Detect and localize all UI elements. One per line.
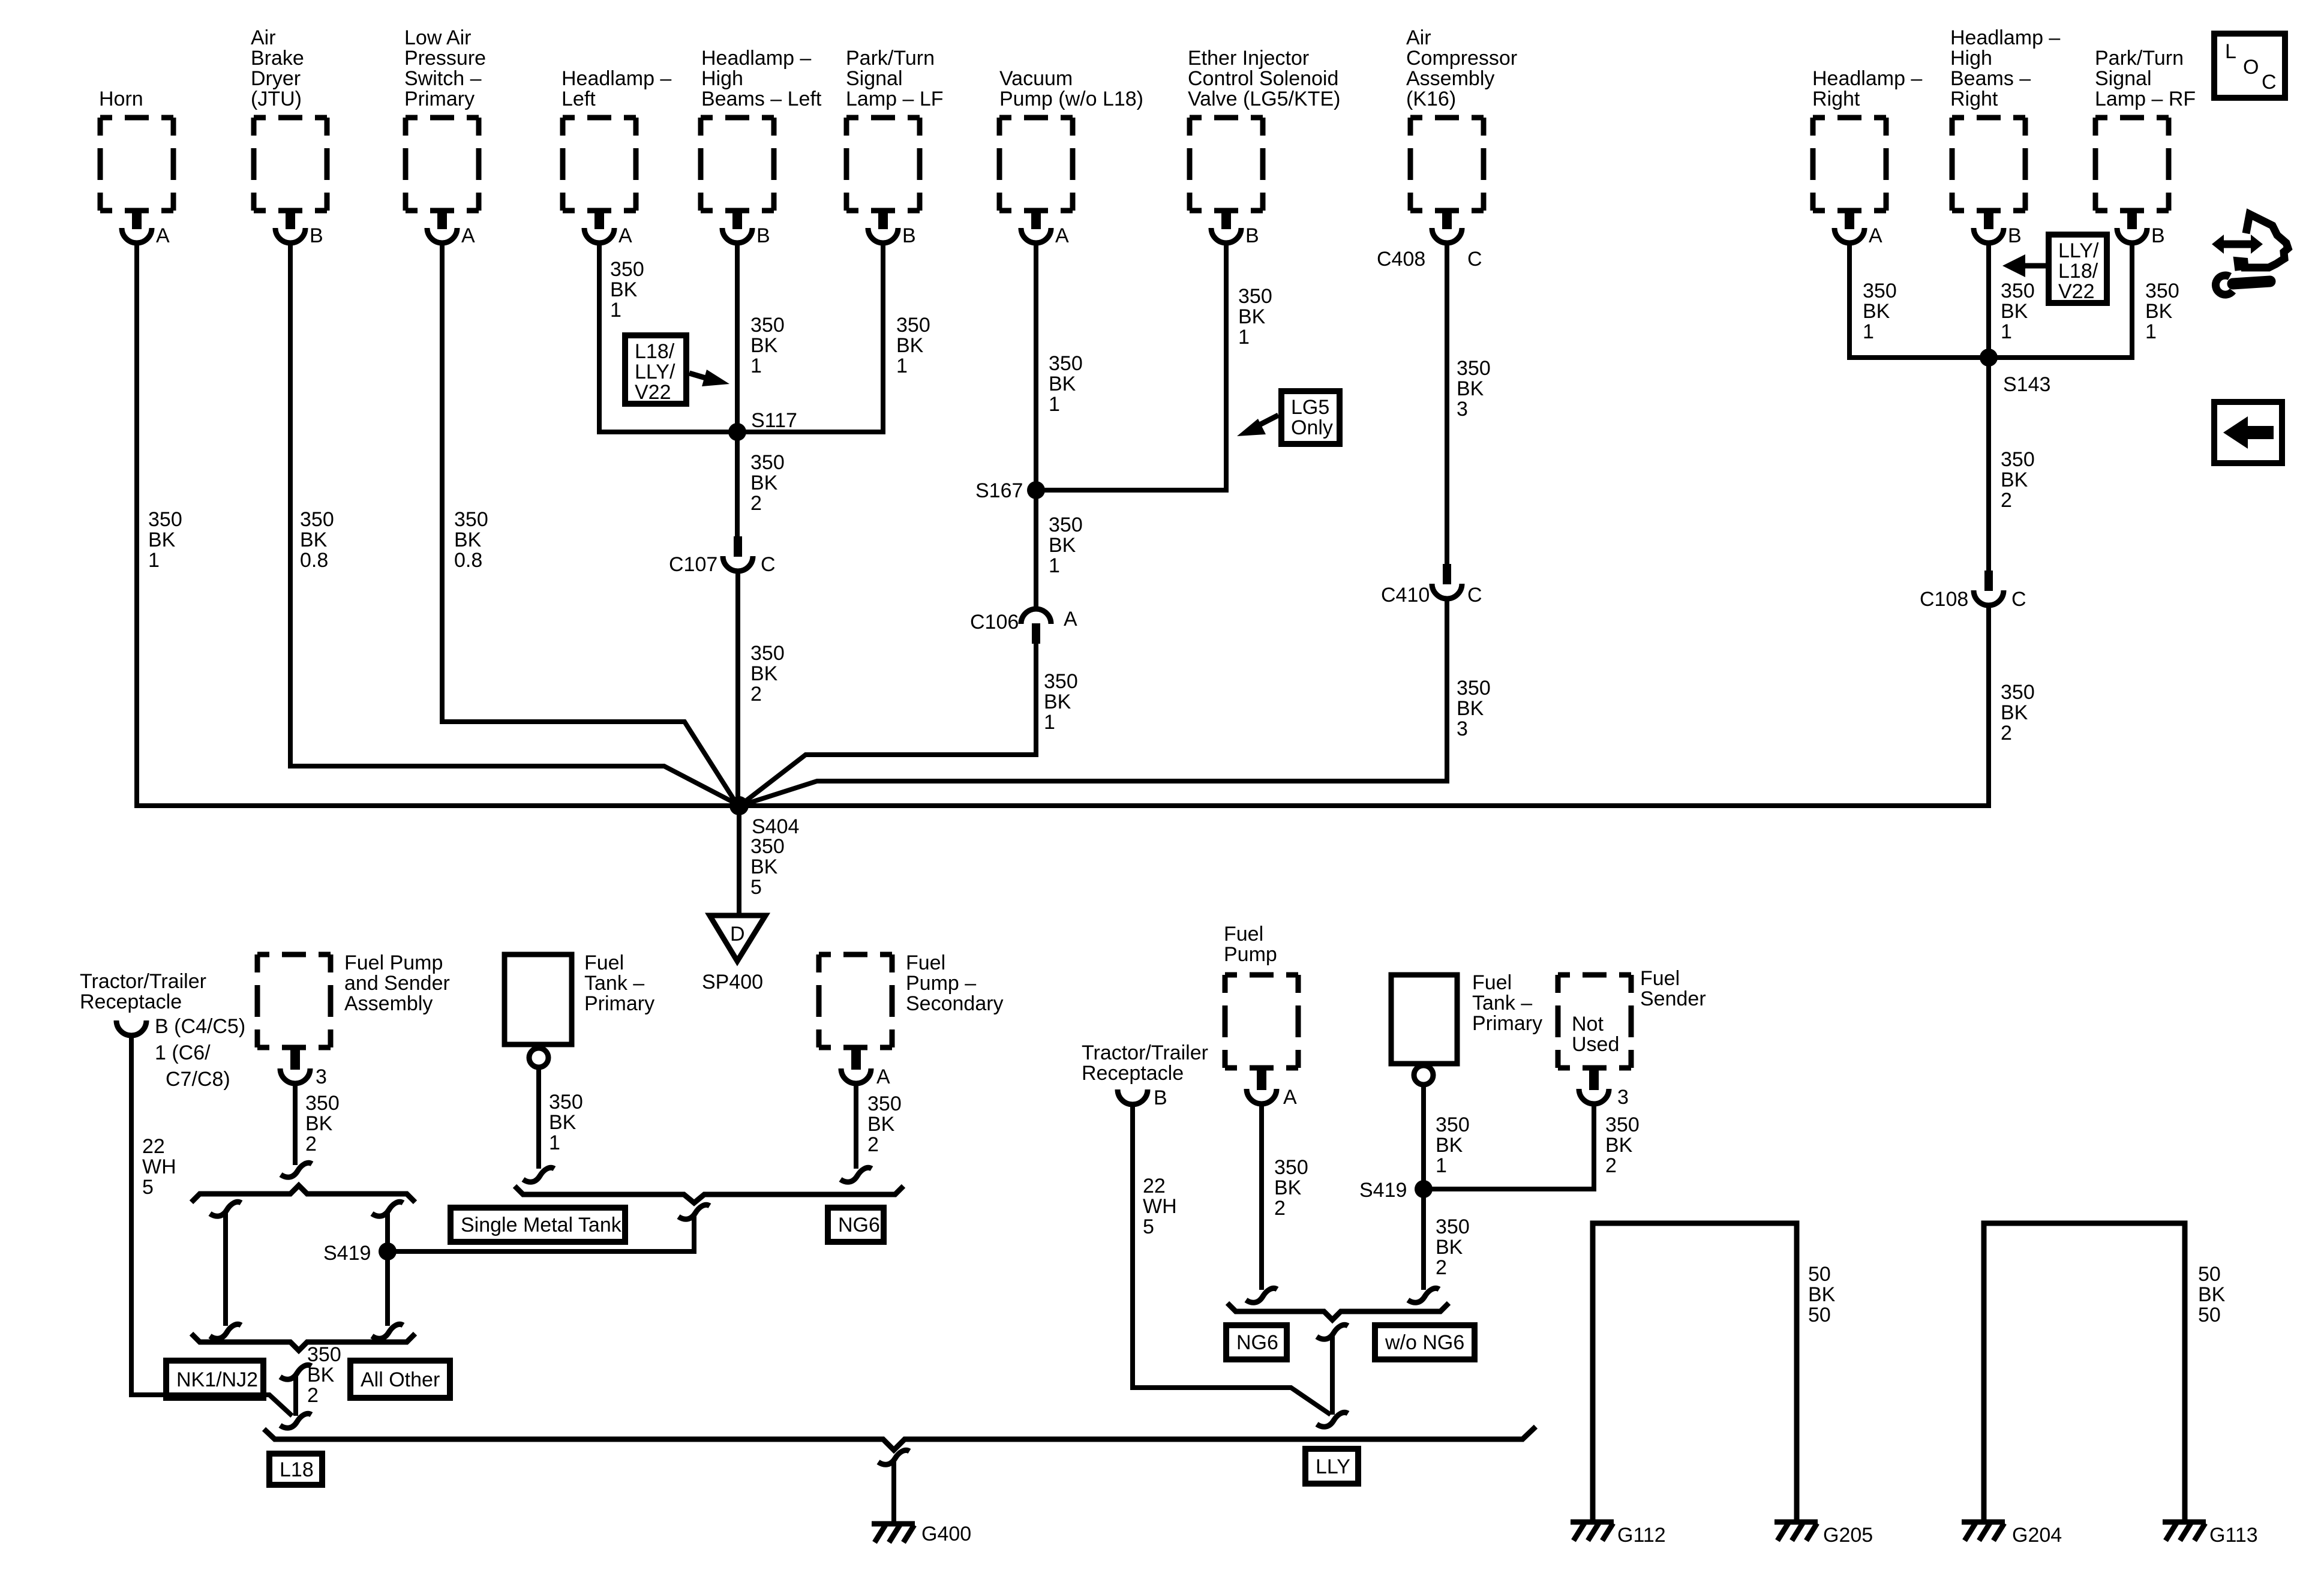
svg-text:3: 3 — [316, 1065, 327, 1088]
ground G113 — [2163, 1522, 2258, 1547]
svg-text:BK: BK — [1274, 1176, 1302, 1199]
component Tractor/Trailer Receptacle (left) — [80, 970, 245, 1091]
svg-text:BK: BK — [1049, 534, 1076, 557]
svg-text:Fuel: Fuel — [584, 951, 624, 974]
svg-text:350: 350 — [1436, 1113, 1470, 1136]
svg-text:3: 3 — [1457, 718, 1468, 740]
svg-text:Pump (w/o L18): Pump (w/o L18) — [999, 88, 1143, 110]
svg-text:22: 22 — [1143, 1175, 1166, 1197]
hook below Single Metal Tank brace center — [678, 1205, 710, 1219]
alternatives brace above NK1/NJ2 All Other labels — [191, 1334, 415, 1350]
svg-text:Headlamp –: Headlamp – — [1812, 67, 1922, 90]
svg-text:S143: S143 — [2003, 373, 2050, 396]
service icon vehicle with double arrow and wrench — [2212, 214, 2288, 295]
svg-text:C408: C408 — [1377, 248, 1425, 271]
branch wire NK1/NJ2 alternative — [223, 1212, 228, 1326]
component Fuel Pump and Sender Assembly (dashed box) — [257, 951, 450, 1047]
svg-text:Vacuum: Vacuum — [999, 67, 1073, 90]
svg-text:G400: G400 — [921, 1523, 971, 1545]
svg-text:350: 350 — [1605, 1113, 1640, 1136]
svg-text:Fuel: Fuel — [1472, 971, 1512, 994]
svg-text:2: 2 — [750, 492, 762, 515]
svg-text:Assembly: Assembly — [344, 992, 433, 1015]
svg-text:Only: Only — [1291, 416, 1333, 439]
option label box NK1/NJ2 — [166, 1361, 263, 1398]
option label box All Other — [350, 1361, 450, 1398]
svg-text:350: 350 — [1863, 280, 1897, 302]
component Park/Turn Signal Lamp - RF (dashed box) — [2095, 47, 2196, 211]
svg-text:350: 350 — [1274, 1156, 1308, 1179]
svg-text:C7/C8): C7/C8) — [166, 1068, 230, 1091]
svg-text:NG6: NG6 — [1236, 1331, 1278, 1354]
svg-text:1: 1 — [610, 299, 621, 322]
ground G205 — [1774, 1522, 1873, 1547]
svg-text:1: 1 — [549, 1131, 560, 1154]
svg-text:BK: BK — [1436, 1134, 1463, 1157]
connector pin B of Ether Injector Valve — [1211, 209, 1259, 247]
svg-text:BK: BK — [2198, 1283, 2226, 1306]
svg-text:Tank –: Tank – — [1472, 992, 1532, 1014]
splice pack SP400 triangle D — [702, 915, 765, 993]
svg-text:BK: BK — [1457, 377, 1484, 400]
svg-text:BK: BK — [1808, 1283, 1836, 1306]
svg-text:(K16): (K16) — [1406, 88, 1456, 110]
option label box LLY — [1305, 1449, 1358, 1484]
svg-text:A: A — [156, 224, 170, 247]
svg-text:WH: WH — [142, 1155, 176, 1178]
svg-text:Air: Air — [251, 26, 276, 49]
component Fuel Tank - Primary (left, solid box) — [505, 951, 654, 1044]
option label box w/o NG6 — [1375, 1325, 1475, 1359]
svg-text:5: 5 — [1143, 1215, 1154, 1238]
wire 350 BK 1 from S167 to C106 — [1036, 490, 1083, 610]
svg-text:L18/: L18/ — [635, 340, 675, 363]
svg-text:1: 1 — [2145, 320, 2157, 343]
wire 350 BK 2 from C108 to S404 — [739, 604, 2035, 806]
callout box LG5 Only with arrow — [1237, 391, 1340, 444]
component Air Compressor Assembly (K16) (dashed box) — [1406, 26, 1517, 211]
svg-text:350: 350 — [1049, 352, 1083, 375]
svg-text:A: A — [876, 1065, 890, 1088]
svg-text:C107: C107 — [669, 553, 717, 576]
svg-text:Sender: Sender — [1640, 987, 1706, 1010]
svg-text:350: 350 — [1436, 1215, 1470, 1238]
svg-text:350: 350 — [750, 451, 785, 474]
svg-text:C410: C410 — [1381, 584, 1430, 607]
svg-text:2: 2 — [307, 1384, 319, 1407]
hook top of All Other branch — [372, 1202, 403, 1216]
svg-text:Headlamp –: Headlamp – — [701, 47, 811, 70]
wire 350 BK 5 from S404 to SP400 — [739, 806, 785, 917]
connector pin A of Headlamp Right — [1834, 209, 1882, 247]
svg-text:3: 3 — [1457, 398, 1468, 421]
component Tractor/Trailer Receptacle (right) — [1082, 1041, 1208, 1109]
svg-text:Left: Left — [562, 88, 596, 110]
svg-text:A: A — [1055, 224, 1069, 247]
svg-text:Signal: Signal — [846, 67, 903, 90]
option label box Single Metal Tank — [451, 1208, 625, 1242]
hook top of NK1/NJ2 branch — [210, 1202, 241, 1216]
wire 350 BK 1 from Headlamp Left to S117 — [599, 242, 737, 432]
svg-text:Switch –: Switch – — [404, 67, 482, 90]
svg-text:BK: BK — [750, 472, 778, 494]
svg-text:1: 1 — [750, 355, 762, 377]
splice S117 — [728, 409, 797, 441]
svg-text:S167: S167 — [975, 479, 1023, 502]
svg-text:Pump: Pump — [1224, 943, 1277, 966]
svg-text:Pump –: Pump – — [906, 972, 976, 995]
svg-text:BK: BK — [1457, 697, 1484, 720]
svg-text:Horn: Horn — [99, 88, 143, 110]
ground strap loop G204 to G113 — [1984, 1223, 2226, 1522]
inline connector C107 pin C — [669, 536, 776, 576]
svg-text:NK1/NJ2: NK1/NJ2 — [176, 1368, 258, 1391]
wire 22 WH 5 from right Tractor/Trailer Receptacle to LLY bus — [1133, 1103, 1331, 1415]
svg-text:High: High — [701, 67, 743, 90]
wire 350 BK 1 from Headlamp High Beams Left to S117 — [737, 242, 785, 432]
splice S143 — [1980, 349, 2050, 396]
svg-text:350: 350 — [750, 642, 785, 665]
svg-text:Compressor: Compressor — [1406, 47, 1517, 70]
svg-text:350: 350 — [2145, 280, 2179, 302]
component Fuel Sender (dashed box, Not Used) — [1558, 967, 1706, 1068]
hook below bus brace center — [878, 1450, 909, 1464]
hook below NG6 brace center — [1317, 1325, 1348, 1339]
inline connector C410 pin C — [1381, 564, 1482, 607]
wire from bus brace center to ground G400 — [891, 1460, 896, 1523]
svg-text:B: B — [1245, 224, 1259, 247]
svg-text:350: 350 — [1044, 670, 1078, 693]
svg-text:BK: BK — [750, 662, 778, 685]
svg-text:L18/: L18/ — [2058, 260, 2098, 283]
svg-text:Lamp – RF: Lamp – RF — [2095, 88, 2196, 110]
svg-text:350: 350 — [305, 1092, 340, 1115]
svg-text:1 (C6/: 1 (C6/ — [155, 1041, 211, 1064]
svg-text:350: 350 — [307, 1343, 341, 1366]
hook end of Fuel Pump right wire — [1246, 1288, 1277, 1302]
svg-text:A: A — [1283, 1086, 1297, 1109]
connector pin B of Headlamp High Beams Left — [722, 209, 770, 247]
ground G204 — [1962, 1522, 2062, 1547]
svg-text:BK: BK — [454, 529, 482, 551]
case ground ring of Fuel Tank Primary right — [1414, 1065, 1433, 1085]
svg-text:350: 350 — [300, 508, 334, 531]
svg-text:B (C4/C5): B (C4/C5) — [155, 1015, 245, 1038]
connector pin B of Headlamp High Beams Right — [1974, 209, 2022, 247]
svg-text:1: 1 — [148, 549, 160, 572]
connector pin A of Fuel Pump right — [1247, 1070, 1297, 1109]
connector pin 3 of Fuel Pump and Sender Assembly — [280, 1049, 327, 1088]
svg-text:BK: BK — [305, 1112, 333, 1135]
splice S404 — [729, 796, 799, 838]
inline connector C106 pin A — [970, 608, 1077, 644]
svg-text:350: 350 — [610, 258, 644, 281]
wire 350 BK 2 from C107 to S404 — [738, 570, 785, 806]
svg-text:Tank –: Tank – — [584, 972, 644, 995]
svg-text:BK: BK — [1436, 1236, 1463, 1259]
svg-text:S419: S419 — [1359, 1179, 1407, 1202]
svg-text:V22: V22 — [2058, 280, 2095, 303]
svg-text:BK: BK — [610, 278, 638, 301]
svg-text:Park/Turn: Park/Turn — [2095, 47, 2184, 70]
svg-text:S419: S419 — [323, 1242, 371, 1265]
hook bottom of All Other branch — [372, 1324, 403, 1338]
svg-text:A: A — [1064, 608, 1077, 631]
svg-text:C108: C108 — [1920, 588, 1968, 611]
svg-text:1: 1 — [1049, 554, 1060, 577]
wire 350 BK 1 from Park/Turn Signal Lamp LF to S117 — [737, 242, 930, 432]
svg-text:BK: BK — [2145, 300, 2173, 323]
svg-text:350: 350 — [2001, 448, 2035, 471]
wire 350 BK 3 from C408 to C410 — [1447, 242, 1491, 565]
wire 350 BK 0.8 from Low Air Pressure Switch to S404 — [442, 242, 737, 804]
callout box LLY/L18/V22 with arrow to High Beams Right wire — [2002, 235, 2107, 303]
svg-text:Right: Right — [1812, 88, 1860, 110]
svg-text:Primary: Primary — [1472, 1012, 1542, 1035]
svg-text:O: O — [2243, 56, 2259, 79]
ground G400 — [872, 1523, 971, 1545]
svg-text:NG6: NG6 — [838, 1214, 880, 1236]
wire from Single Metal Tank brace center to S419 (left) — [389, 1214, 694, 1251]
svg-text:350: 350 — [867, 1092, 902, 1115]
svg-text:2: 2 — [750, 683, 762, 706]
option label box NG6 (left section) — [828, 1208, 884, 1242]
svg-text:Headlamp –: Headlamp – — [1950, 26, 2060, 49]
wire 350 BK 1 from Horn to S404 — [137, 242, 739, 806]
svg-text:B: B — [756, 224, 770, 247]
svg-text:LLY/: LLY/ — [2058, 239, 2099, 262]
svg-text:50: 50 — [2198, 1304, 2221, 1326]
alternatives brace Single Metal Tank / NG6 — [515, 1186, 903, 1203]
wire 350 BK 2 from Fuel Pump and Sender Assembly — [295, 1082, 340, 1165]
svg-text:C: C — [1467, 584, 1482, 607]
wire 350 BK 2 from Fuel Pump right — [1262, 1103, 1308, 1290]
component Headlamp - Left (dashed box) — [562, 67, 671, 211]
svg-text:C: C — [761, 553, 776, 576]
svg-text:Tractor/Trailer: Tractor/Trailer — [1082, 1041, 1208, 1064]
svg-text:350: 350 — [2001, 681, 2035, 704]
svg-text:Used: Used — [1572, 1033, 1619, 1056]
svg-text:Fuel: Fuel — [906, 951, 945, 974]
svg-text:All Other: All Other — [361, 1368, 440, 1391]
svg-text:50: 50 — [1808, 1263, 1831, 1286]
svg-text:BK: BK — [867, 1113, 895, 1136]
svg-text:C: C — [2262, 71, 2277, 94]
svg-text:350: 350 — [1049, 514, 1083, 536]
svg-text:Dryer: Dryer — [251, 67, 301, 90]
svg-text:BK: BK — [2001, 701, 2028, 724]
svg-text:A: A — [461, 224, 475, 247]
svg-text:BK: BK — [750, 855, 778, 878]
svg-text:1: 1 — [1863, 320, 1874, 343]
svg-text:BK: BK — [549, 1111, 577, 1134]
connector pin A of Vacuum Pump — [1021, 209, 1069, 247]
wire 350 BK 1 from Vacuum Pump to S167 — [1036, 242, 1083, 490]
wire 350 BK 1 from C106 to S404 — [743, 643, 1078, 803]
svg-text:Control Solenoid: Control Solenoid — [1188, 67, 1338, 90]
hook end of Fuel Pump Secondary wire — [840, 1167, 872, 1182]
wire 350 BK 1 from Fuel Tank Primary left — [539, 1069, 583, 1169]
svg-text:5: 5 — [750, 876, 762, 899]
svg-text:Right: Right — [1950, 88, 1998, 110]
svg-text:BK: BK — [1863, 300, 1890, 323]
svg-text:BK: BK — [1605, 1134, 1633, 1157]
svg-text:Valve (LG5/KTE): Valve (LG5/KTE) — [1188, 88, 1340, 110]
case ground ring of Fuel Tank Primary left — [529, 1048, 548, 1067]
svg-text:0.8: 0.8 — [300, 549, 328, 572]
wire 350 BK 2 from brace center to L18 bus — [296, 1343, 341, 1416]
connector pin B of Air Brake Dryer — [275, 209, 323, 247]
svg-text:LG5: LG5 — [1291, 396, 1329, 419]
svg-text:1: 1 — [1044, 711, 1055, 734]
svg-text:BK: BK — [2001, 469, 2028, 491]
option label box L18 — [269, 1454, 322, 1485]
connector pin B of Park/Turn Signal Lamp LF — [868, 209, 916, 247]
component Fuel Pump - Secondary (dashed box) — [819, 951, 1004, 1047]
ground strap loop G112 to G205 — [1593, 1223, 1836, 1522]
svg-text:BK: BK — [896, 334, 924, 357]
svg-text:0.8: 0.8 — [454, 549, 482, 572]
connector pin A of Horn — [122, 209, 170, 247]
svg-text:Fuel Pump: Fuel Pump — [344, 951, 443, 974]
svg-text:B: B — [902, 224, 916, 247]
hook bottom of NK1/NJ2 branch — [210, 1324, 241, 1338]
svg-text:2: 2 — [867, 1133, 879, 1156]
svg-text:WH: WH — [1143, 1195, 1177, 1218]
component Air Brake Dryer (JTU) (dashed box) — [251, 26, 327, 211]
component Headlamp - High Beams - Left (dashed box) — [701, 47, 822, 211]
connector pin A of Low Air Pressure Switch — [427, 209, 475, 247]
connector C408 pin C of Air Compressor — [1377, 209, 1482, 271]
wire 350 BK 2 from S117 to C107 — [737, 432, 785, 538]
svg-text:3: 3 — [1617, 1086, 1629, 1109]
svg-text:Pressure: Pressure — [404, 47, 486, 70]
svg-text:2: 2 — [1274, 1197, 1286, 1220]
svg-text:Not: Not — [1572, 1013, 1604, 1035]
svg-text:G113: G113 — [2209, 1524, 2258, 1547]
inverted alternatives brace above NK1/NJ2 and All Other — [191, 1185, 415, 1202]
component Park/Turn Signal Lamp - LF (dashed box) — [846, 47, 944, 211]
svg-text:B: B — [310, 224, 323, 247]
wire 350 BK 2 from Fuel Pump Secondary — [856, 1082, 902, 1169]
wire 350 BK 2 from Fuel Sender to S419 right — [1424, 1103, 1640, 1189]
ground bus brace L18 / LLY with center to G400 — [264, 1427, 1536, 1450]
svg-text:LLY: LLY — [1316, 1455, 1350, 1478]
svg-text:1: 1 — [1238, 326, 1250, 349]
wire 350 BK 1 from Park/Turn Signal Lamp RF to S143 — [1989, 242, 2179, 358]
svg-text:Receptacle: Receptacle — [80, 990, 182, 1013]
component Headlamp - High Beams - Right (dashed box) — [1950, 26, 2060, 211]
svg-text:BK: BK — [2001, 300, 2028, 323]
component Horn (dashed box) — [99, 88, 173, 211]
svg-text:350: 350 — [2001, 280, 2035, 302]
wire 350 BK 1 from Fuel Tank Primary right to S419 — [1424, 1086, 1470, 1189]
alternatives brace NG6 / w/o NG6 — [1227, 1303, 1449, 1320]
svg-text:High: High — [1950, 47, 1992, 70]
hook below lower brace center — [280, 1365, 311, 1379]
svg-text:Headlamp –: Headlamp – — [562, 67, 671, 90]
ground G112 — [1571, 1522, 1666, 1547]
svg-text:Secondary: Secondary — [906, 992, 1004, 1015]
svg-text:2: 2 — [2001, 489, 2012, 512]
svg-text:G204: G204 — [2012, 1524, 2062, 1547]
wire 22 WH 5 from Tractor/Trailer Receptacle to L18 bus — [131, 1034, 292, 1416]
svg-text:BK: BK — [1049, 373, 1076, 395]
svg-text:Single Metal Tank: Single Metal Tank — [461, 1214, 622, 1236]
svg-text:Lamp – LF: Lamp – LF — [846, 88, 944, 110]
svg-text:1: 1 — [896, 355, 908, 377]
svg-text:22: 22 — [142, 1135, 165, 1158]
wire 350 BK 1 from Ether Injector Valve to S167 — [1036, 242, 1272, 490]
wire 350 BK 3 from C410 to S404 — [744, 598, 1491, 804]
svg-text:50: 50 — [1808, 1304, 1831, 1326]
splice S419 (left) — [323, 1242, 397, 1265]
svg-text:Beams –: Beams – — [1950, 67, 2031, 90]
svg-text:and Sender: and Sender — [344, 972, 450, 995]
svg-text:350: 350 — [454, 508, 488, 531]
svg-text:2: 2 — [2001, 722, 2012, 745]
svg-text:5: 5 — [142, 1176, 154, 1199]
svg-text:Low Air: Low Air — [404, 26, 472, 49]
svg-text:Park/Turn: Park/Turn — [846, 47, 935, 70]
svg-text:B: B — [2008, 224, 2022, 247]
svg-text:Ether Injector: Ether Injector — [1188, 47, 1309, 70]
svg-text:Brake: Brake — [251, 47, 304, 70]
wire 350 BK 1 from Headlamp Right to S143 — [1849, 242, 1989, 358]
svg-text:BK: BK — [148, 529, 176, 551]
svg-text:C: C — [2011, 588, 2026, 611]
LOC legend box top right — [2214, 34, 2285, 98]
svg-text:350: 350 — [1238, 285, 1272, 308]
svg-text:Tractor/Trailer: Tractor/Trailer — [80, 970, 206, 993]
hook end of Fuel Pump and Sender wire — [281, 1163, 312, 1177]
inline connector C108 pin C — [1920, 571, 2026, 611]
svg-text:350: 350 — [896, 314, 930, 337]
svg-text:Signal: Signal — [2095, 67, 2152, 90]
svg-text:350: 350 — [549, 1091, 583, 1113]
component Fuel Pump (right, dashed box) — [1224, 923, 1298, 1068]
svg-text:BK: BK — [750, 334, 778, 357]
svg-text:1: 1 — [1436, 1154, 1447, 1177]
svg-text:D: D — [730, 923, 745, 945]
svg-text:Fuel: Fuel — [1224, 923, 1263, 945]
connector pin B of Park/Turn Signal Lamp RF — [2117, 209, 2165, 247]
wire 350 BK 2 from S419 right to NG6 brace — [1424, 1189, 1470, 1290]
svg-text:B: B — [2151, 224, 2165, 247]
hook end of Fuel Tank Primary left wire — [523, 1167, 554, 1182]
svg-text:L: L — [2225, 40, 2236, 63]
callout box L18/LLY/V22 with arrow to High Beams Left wire — [625, 335, 729, 404]
wire 350 BK 0.8 from Air Brake Dryer to S404 — [290, 242, 735, 803]
svg-text:A: A — [618, 224, 632, 247]
svg-text:B: B — [1154, 1086, 1167, 1109]
hook end of S419 right wire — [1408, 1288, 1439, 1302]
svg-text:Air: Air — [1406, 26, 1431, 49]
svg-text:L18: L18 — [280, 1458, 314, 1481]
svg-text:350: 350 — [750, 314, 785, 337]
svg-text:G205: G205 — [1823, 1524, 1873, 1547]
svg-text:BK: BK — [307, 1364, 335, 1386]
svg-text:S117: S117 — [751, 409, 797, 432]
svg-text:BK: BK — [1044, 691, 1071, 713]
svg-text:50: 50 — [2198, 1263, 2221, 1286]
svg-text:BK: BK — [1238, 305, 1266, 328]
component Ether Injector Control Solenoid Valve (LG5/KTE) (dashed box) — [1188, 47, 1340, 211]
svg-text:(JTU): (JTU) — [251, 88, 302, 110]
component Headlamp - Right (dashed box) — [1812, 67, 1922, 211]
connector pin A of Headlamp Left — [584, 209, 632, 247]
svg-text:Primary: Primary — [404, 88, 475, 110]
